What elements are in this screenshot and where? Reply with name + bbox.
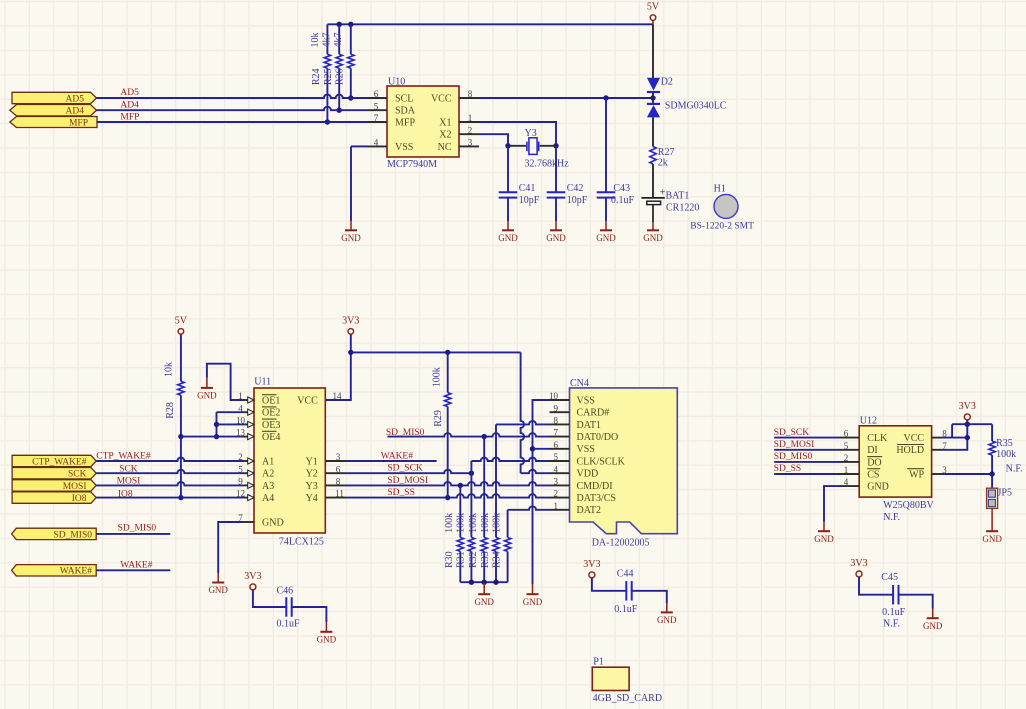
wire 3V3 to C46 [253, 590, 286, 607]
svg-text:100k: 100k [492, 513, 503, 533]
wire 3V3 to VCC [325, 334, 351, 400]
svg-text:R32: R32 [468, 551, 479, 568]
resistor R25 [338, 24, 340, 54]
svg-text:100k: 100k [468, 513, 479, 533]
wire SCK to A2 [96, 470, 244, 473]
wire crystal to C42 [555, 146, 557, 193]
svg-text:CS: CS [867, 469, 879, 480]
svg-text:10pF: 10pF [567, 195, 588, 206]
port MFP [10, 117, 97, 128]
pin 5 A2 of U11 [244, 472, 254, 474]
jumper JP5 [987, 488, 998, 508]
junction on rail at R25 [337, 22, 342, 27]
ground U11 pin7 [217, 573, 219, 583]
svg-text:R31: R31 [455, 551, 466, 568]
svg-text:CTP_WAKE#: CTP_WAKE# [32, 457, 87, 467]
pin 14 VCC of U11 [325, 399, 345, 401]
junction R30 top [458, 483, 463, 488]
ground C41 [507, 221, 509, 230]
pin 4 VDD of CN4 [550, 472, 570, 474]
svg-text:R34: R34 [492, 551, 503, 568]
component P1 body [592, 667, 629, 690]
svg-text:Y4: Y4 [306, 493, 318, 504]
wire 3V3 to C45 [859, 577, 893, 594]
wire D2 to R27 [652, 117, 654, 146]
junction crystal left [505, 143, 510, 148]
buffer U11 body [254, 388, 325, 533]
wire MOSI to A3 [96, 482, 244, 486]
svg-text:2: 2 [554, 489, 559, 499]
wire C43 to ground [605, 198, 607, 221]
svg-text:100k: 100k [480, 513, 491, 533]
junction VCC row [965, 435, 970, 440]
pin 6 Y2 of U11 [325, 472, 345, 474]
wire SD_MIS0 to DAT0 [387, 433, 549, 436]
junction R28-OE4 [178, 434, 183, 439]
pin 3 WP of U12 [932, 473, 942, 475]
resistor R34 [504, 537, 510, 551]
wire SD_MOSI from Y3 [345, 482, 550, 486]
svg-text:1: 1 [844, 465, 849, 475]
svg-text:C43: C43 [613, 183, 630, 194]
svg-text:SDA: SDA [395, 106, 416, 117]
svg-text:A4: A4 [262, 493, 274, 504]
wire VCC pin8 row [942, 437, 967, 439]
svg-text:C42: C42 [567, 183, 584, 194]
svg-text:N.F.: N.F. [1006, 464, 1023, 475]
svg-text:AD4: AD4 [120, 101, 139, 111]
svg-text:0.1uF: 0.1uF [614, 604, 638, 615]
svg-text:3V3: 3V3 [244, 571, 261, 582]
svg-text:GND: GND [197, 390, 217, 400]
junction bus R33 [493, 580, 498, 585]
wire VSS to ground [351, 145, 367, 147]
svg-text:MCP7940M: MCP7940M [387, 159, 437, 170]
wire resistor bus [460, 581, 507, 583]
wire OE4 [181, 436, 244, 438]
junction R31 top [469, 471, 474, 476]
svg-text:CTP_WAKE#: CTP_WAKE# [96, 452, 151, 462]
svg-text:DO: DO [867, 457, 881, 468]
svg-text:GND: GND [262, 517, 284, 528]
pin 4 OE2 of U11 [244, 411, 254, 413]
svg-text:SD_SCK: SD_SCK [774, 428, 810, 438]
svg-text:7: 7 [554, 428, 559, 438]
resistor R27 [650, 147, 656, 165]
svg-text:SD_MIS0: SD_MIS0 [774, 452, 813, 462]
wire CTP_WAKE# to A1 [96, 458, 244, 461]
svg-text:BS-1220-2 SMT: BS-1220-2 SMT [690, 221, 754, 231]
svg-text:BAT1: BAT1 [666, 190, 690, 201]
svg-text:1: 1 [554, 501, 559, 511]
pin 10 VSS of CN4 [550, 399, 570, 401]
svg-text:VCC: VCC [431, 93, 452, 104]
svg-text:MFP: MFP [395, 117, 415, 128]
wire WP to R35 [942, 473, 992, 475]
svg-text:U12: U12 [860, 415, 877, 426]
port SCK [12, 468, 96, 479]
resistor R33 [493, 537, 499, 551]
wire 3V3 elbow to pin8 [951, 424, 953, 437]
svg-text:4: 4 [844, 477, 849, 487]
svg-text:DAT2: DAT2 [577, 505, 601, 516]
wire VSS pin10 [533, 400, 550, 584]
ground OE1 [206, 378, 208, 388]
svg-text:100k: 100k [431, 367, 442, 387]
junction bus R32 [482, 580, 487, 585]
svg-text:AD4: AD4 [66, 107, 85, 117]
resistor R26 [350, 24, 352, 54]
svg-text:4k7: 4k7 [333, 33, 344, 48]
wire 5V down to D2 [652, 24, 654, 78]
wire SD_SS from Y4 [345, 494, 550, 498]
port MOSI [12, 480, 96, 491]
wire VDD 3V3 feed [521, 352, 525, 473]
svg-text:GND: GND [341, 233, 361, 243]
svg-text:OE2: OE2 [262, 408, 280, 419]
svg-text:R25: R25 [323, 68, 334, 85]
pin 9 A3 of U11 [244, 484, 254, 486]
svg-text:D2: D2 [661, 76, 673, 87]
svg-text:8: 8 [554, 416, 559, 426]
wire C44 to ground [632, 591, 667, 603]
capacitor C44 [625, 581, 627, 601]
svg-text:R35: R35 [996, 438, 1013, 449]
svg-text:0.1uF: 0.1uF [611, 195, 635, 206]
op-amp U10 body [387, 86, 459, 157]
junction R29-SD_SS [445, 495, 450, 500]
wire SD_MIS0 to U12 [774, 461, 839, 463]
svg-text:3: 3 [554, 477, 559, 487]
svg-text:R24: R24 [311, 68, 322, 85]
svg-text:R28: R28 [165, 402, 176, 419]
svg-text:5: 5 [238, 464, 243, 474]
svg-text:10: 10 [549, 391, 559, 401]
junction 3V3 U12 [965, 422, 970, 427]
junction OE3 [214, 422, 219, 427]
svg-text:32.768kHz: 32.768kHz [525, 159, 570, 170]
svg-text:AD5: AD5 [120, 88, 139, 98]
svg-text:DAT1: DAT1 [577, 420, 601, 431]
junction VCC-C43 [603, 95, 608, 100]
junction R35-WP [989, 471, 994, 476]
diode D2 [647, 78, 660, 91]
pin 8 Y3 of U11 [325, 484, 345, 486]
svg-text:GND: GND [498, 233, 518, 243]
wire DAT2 to R34 [508, 506, 550, 509]
pin 1 DAT2 of CN4 [550, 509, 570, 511]
svg-text:100k: 100k [455, 513, 466, 533]
ground C44 [666, 603, 668, 612]
svg-text:10pF: 10pF [519, 195, 540, 206]
svg-text:4GB_SD_CARD: 4GB_SD_CARD [593, 693, 662, 704]
svg-text:6: 6 [554, 440, 559, 450]
wire R28 to A4 row [180, 437, 182, 498]
svg-text:A3: A3 [262, 481, 274, 492]
wire SD_SS to U12 [774, 473, 839, 475]
svg-text:X2: X2 [439, 130, 451, 141]
svg-text:6: 6 [374, 89, 379, 99]
pin 4 VSS [367, 145, 387, 147]
svg-text:3V3: 3V3 [959, 401, 976, 412]
port CTP_WAKE# [12, 455, 96, 466]
svg-text:GND: GND [982, 534, 1002, 544]
svg-text:OE1: OE1 [262, 395, 280, 406]
svg-text:VCC: VCC [297, 395, 318, 406]
svg-text:GND: GND [474, 597, 494, 607]
svg-text:4: 4 [554, 464, 559, 474]
svg-text:IO8: IO8 [118, 489, 133, 499]
resistor R32 [483, 437, 485, 538]
wire C45 to ground [899, 595, 933, 609]
pin 7 DAT0/DO of CN4 [550, 436, 570, 438]
wire OE2 [217, 411, 245, 413]
pin 2 A1 of U11 [244, 460, 254, 462]
svg-text:N.F.: N.F. [883, 619, 900, 630]
wire MFP to pin7 [97, 121, 367, 123]
svg-text:74LCX125: 74LCX125 [279, 537, 324, 548]
resistor R30 [459, 485, 461, 537]
svg-text:2k: 2k [658, 158, 668, 169]
svg-text:OE4: OE4 [262, 432, 280, 443]
svg-text:5: 5 [554, 452, 559, 462]
wire 5V rail [327, 23, 653, 25]
svg-text:SD_SCK: SD_SCK [387, 464, 423, 474]
svg-text:DAT3/CS: DAT3/CS [577, 493, 616, 504]
svg-text:SCK: SCK [119, 464, 138, 474]
svg-text:5V: 5V [647, 2, 660, 13]
wire 3V3 to C44 [592, 578, 626, 591]
holder H1 circle [714, 194, 738, 218]
wire 3V3 rail [351, 351, 521, 353]
svg-text:P1: P1 [593, 657, 604, 668]
svg-text:9: 9 [554, 403, 559, 413]
wire X1 to crystal [479, 122, 556, 146]
wire X2 to crystal [479, 134, 508, 146]
svg-text:CARD#: CARD# [577, 408, 610, 419]
junction VSS pin6 [530, 446, 535, 451]
capacitor C46 [285, 597, 287, 617]
svg-text:W25Q80BV: W25Q80BV [883, 500, 934, 511]
svg-text:100k: 100k [444, 513, 455, 533]
svg-text:12: 12 [236, 489, 245, 499]
pin 6 VSS of CN4 [550, 448, 570, 450]
svg-text:CR1220: CR1220 [666, 203, 699, 214]
svg-text:Y3: Y3 [306, 481, 318, 492]
junction VCC-D2 [650, 95, 655, 100]
svg-text:SCL: SCL [395, 93, 413, 104]
junction R28-A4 [178, 495, 183, 500]
svg-text:8: 8 [468, 89, 473, 99]
svg-text:R27: R27 [658, 147, 675, 158]
svg-text:4k7: 4k7 [322, 33, 333, 48]
port AD5 [12, 92, 97, 103]
svg-text:9: 9 [238, 477, 243, 487]
pin 2 DAT3/CS of CN4 [550, 497, 570, 499]
wire DAT1 to R33 [496, 421, 550, 424]
port AD4 [10, 105, 97, 116]
wire OE1 to ground loop [207, 364, 244, 400]
pin 1 OE1 of U11 [244, 399, 254, 401]
pin 8 VCC [459, 97, 479, 99]
svg-text:2: 2 [844, 453, 849, 463]
junction crystal right [553, 143, 558, 148]
svg-text:WP: WP [909, 469, 924, 480]
pin 1 X1 [459, 121, 479, 123]
svg-text:X1: X1 [439, 117, 451, 128]
svg-text:C44: C44 [617, 569, 634, 580]
svg-text:VSS: VSS [577, 395, 595, 406]
svg-text:R29: R29 [433, 410, 444, 427]
wire OE3 [217, 423, 245, 425]
pin 3 CMD/DI of CN4 [550, 484, 570, 486]
pin 2 X2 [459, 133, 479, 135]
ground U10 VSS [350, 221, 352, 230]
pin 6 SCL [367, 97, 387, 99]
svg-text:7: 7 [374, 113, 379, 123]
svg-text:6: 6 [336, 464, 341, 474]
junction OE4 [214, 434, 219, 439]
svg-text:SD_MIS0: SD_MIS0 [53, 530, 92, 540]
svg-text:1: 1 [238, 391, 243, 401]
svg-text:11: 11 [335, 489, 344, 499]
port WAKE# [12, 565, 97, 576]
svg-text:C46: C46 [277, 585, 294, 596]
svg-text:MOSI: MOSI [117, 477, 141, 487]
ground VSS [532, 584, 534, 594]
svg-text:GND: GND [208, 585, 228, 595]
svg-text:4: 4 [374, 138, 379, 148]
ground U12 [823, 522, 825, 532]
flash U12 body [859, 426, 931, 497]
svg-text:SD_MOSI: SD_MOSI [387, 476, 428, 486]
svg-text:SD_SS: SD_SS [387, 488, 414, 498]
svg-text:3: 3 [336, 452, 341, 462]
ground C45 [932, 609, 934, 619]
ground JP5 [991, 508, 993, 531]
pin 3 NC [459, 145, 479, 147]
svg-text:5: 5 [844, 441, 849, 451]
svg-text:10k: 10k [164, 362, 175, 377]
wire crystal to C41 [507, 146, 509, 193]
pin 2 DO of U12 [839, 461, 859, 463]
pin 10 OE3 of U11 [244, 423, 254, 425]
pin 12 A4 of U11 [244, 497, 254, 499]
pin 9 CARD# of CN4 [550, 411, 570, 413]
svg-text:5: 5 [374, 101, 379, 111]
svg-text:SDMG0340LC: SDMG0340LC [665, 101, 727, 112]
svg-text:8: 8 [336, 477, 341, 487]
pin 6 CLK of U12 [839, 437, 859, 439]
port SD_MIS0 [12, 528, 97, 539]
svg-text:SCK: SCK [68, 470, 87, 480]
svg-text:A2: A2 [262, 469, 274, 480]
wire VCC to C43 [605, 98, 607, 192]
pin 3 Y1 of U11 [325, 460, 345, 462]
svg-text:R33: R33 [480, 551, 491, 568]
svg-text:SD_MIS0: SD_MIS0 [118, 524, 157, 534]
svg-text:VSS: VSS [395, 142, 413, 153]
capacitor C43 [597, 191, 616, 193]
svg-text:0.1uF: 0.1uF [882, 607, 906, 618]
pin 1 CS of U12 [839, 473, 859, 475]
svg-text:IO8: IO8 [72, 494, 87, 504]
pin 5 SDA [367, 109, 387, 111]
resistor R35 [991, 424, 993, 441]
svg-text:GND: GND [317, 634, 337, 644]
svg-text:DAT0/DO: DAT0/DO [577, 432, 619, 443]
svg-text:Y2: Y2 [306, 469, 318, 480]
wire R27 to BAT1 [652, 164, 654, 197]
wire SD_SCK to U12 [774, 437, 839, 439]
junction R32 top [482, 434, 487, 439]
svg-text:VDD: VDD [577, 469, 599, 480]
wire C46 to ground [292, 607, 327, 622]
svg-text:GND: GND [867, 482, 889, 493]
svg-text:DI: DI [867, 445, 878, 456]
svg-text:MOSI: MOSI [63, 482, 87, 492]
svg-text:VCC: VCC [904, 433, 925, 444]
capacitor C45 [892, 585, 894, 605]
junction on rail at R26 [348, 22, 353, 27]
svg-text:1: 1 [468, 113, 473, 123]
pin 13 OE4 of U11 [244, 436, 254, 438]
svg-text:0.1uF: 0.1uF [277, 619, 301, 630]
svg-text:SD_SS: SD_SS [774, 464, 801, 474]
wire R35 to JP5 [991, 474, 993, 488]
ground BAT1 [652, 222, 654, 230]
svg-text:SD_MOSI: SD_MOSI [774, 440, 815, 450]
pin 8 VCC of U12 [932, 437, 942, 439]
wire WAKE# from Y1 [345, 460, 437, 462]
wire U12 GND [824, 486, 839, 521]
svg-text:MFP: MFP [69, 118, 88, 128]
ground C43 [605, 221, 607, 230]
svg-text:C45: C45 [881, 572, 898, 583]
svg-text:GND: GND [546, 233, 566, 243]
svg-text:R26: R26 [335, 68, 346, 85]
wire VCC net [479, 97, 652, 99]
svg-text:2: 2 [238, 452, 243, 462]
svg-text:2: 2 [468, 125, 473, 135]
resistor R28 [180, 334, 182, 381]
junction bus R31 [469, 580, 474, 585]
pin 5 CLK/SCLK of CN4 [550, 460, 570, 462]
svg-text:3V3: 3V3 [583, 559, 600, 570]
svg-text:4: 4 [238, 403, 243, 413]
svg-text:GND: GND [643, 233, 663, 243]
wire GND pin7 [218, 522, 244, 573]
wire SD_MOSI to U12 [774, 449, 839, 451]
svg-text:10k: 10k [310, 33, 321, 48]
svg-text:SD_MIS0: SD_MIS0 [386, 428, 425, 438]
svg-text:100k: 100k [996, 449, 1016, 460]
wire C41 to ground [507, 198, 509, 221]
wire SD_SCK from Y2 [345, 470, 471, 473]
pin 4 GND of U12 [839, 485, 859, 487]
wire IO8 to A4 [96, 497, 244, 499]
svg-text:GND: GND [657, 615, 677, 625]
svg-text:CN4: CN4 [570, 378, 589, 389]
wire 3V3 node [942, 420, 967, 450]
svg-text:WAKE#: WAKE# [120, 560, 152, 570]
svg-text:A1: A1 [262, 456, 274, 467]
wire SD_MIS0 port [96, 533, 170, 535]
wire AD5 to SCL [97, 95, 368, 98]
capacitor C42 [547, 191, 566, 193]
svg-text:MFP: MFP [120, 112, 139, 122]
svg-text:CLK/SCLK: CLK/SCLK [577, 456, 626, 467]
